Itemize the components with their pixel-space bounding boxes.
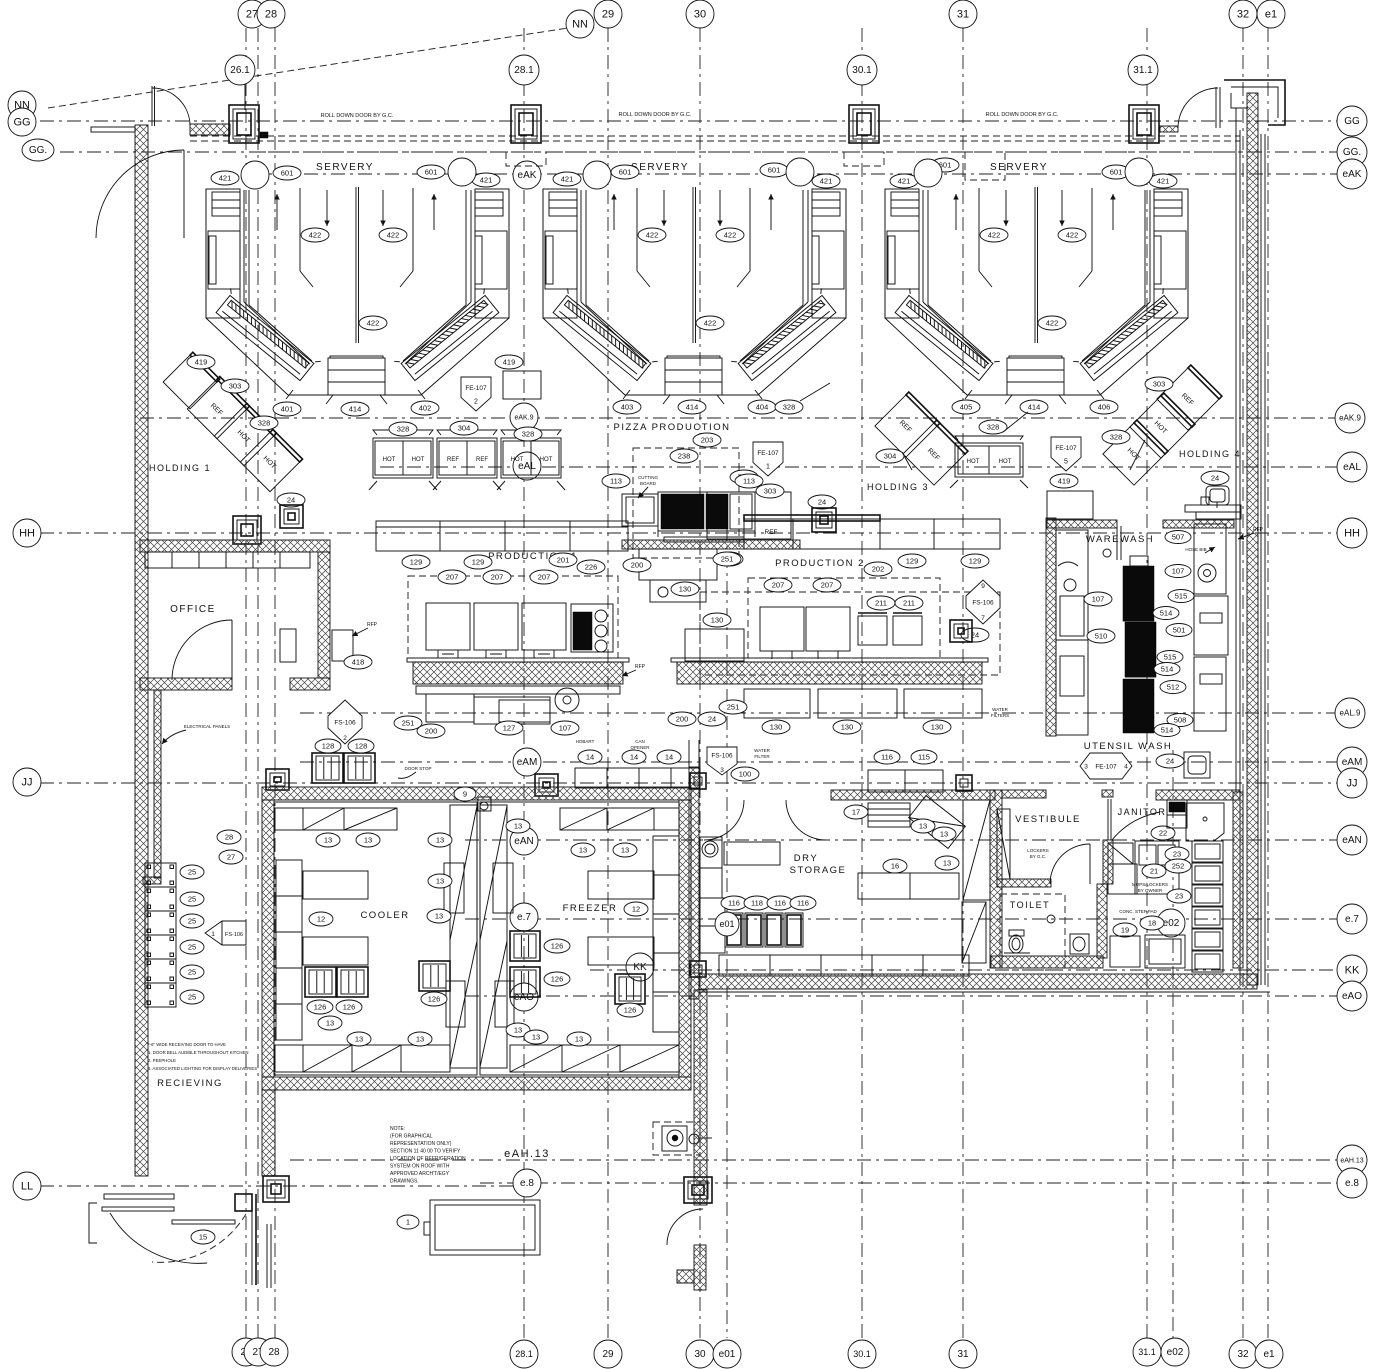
svg-text:113: 113 [743,476,755,485]
pizza under-counter table [639,549,717,580]
door stop rails row [575,768,700,788]
warewash tags [1084,592,1112,606]
svg-text:406: 406 [1098,402,1111,411]
door hook tick [260,132,268,138]
svg-text:eAK: eAK [1343,169,1362,180]
water filter pentagon FS-106 3 [707,747,737,775]
production 1 under-counter equipment [416,686,620,694]
grid bubbles second row [225,55,255,85]
svg-text:30.1: 30.1 [853,1349,871,1359]
pass shelf 24 bay2 [808,495,836,509]
bottom wall along KK [699,974,1257,989]
cooler top shelves [275,808,397,830]
svg-text:328: 328 [522,429,535,438]
svg-text:130: 130 [931,722,944,731]
svg-text:207: 207 [446,572,459,581]
grid horizontal row lines [40,120,1340,122]
svg-text:304: 304 [458,423,471,432]
janitor top cabinet [1167,800,1187,828]
svg-text:128: 128 [355,741,368,750]
svg-text:*-6" WIDE RECEIVING DOOR TO HA: *-6" WIDE RECEIVING DOOR TO HAVE [148,1042,226,1047]
servery front dashed boundary [259,151,1240,153]
pizza FE-107 pentagon 1 [753,442,783,476]
svg-text:419: 419 [503,357,516,366]
svg-text:NOTE:: NOTE: [390,1126,405,1132]
grid bubbles bottom [232,1338,260,1366]
svg-text:LOCATION OF REFRIGERATION: LOCATION OF REFRIGERATION [390,1156,466,1162]
servery bay geometry template [206,187,509,404]
svg-text:eAM: eAM [1342,757,1363,768]
cooler inner outline [274,802,477,1075]
svg-text:eAH.13: eAH.13 [504,1148,550,1160]
dry storage slash rack [909,796,966,849]
svg-text:129: 129 [410,557,423,566]
production 2 small units 211 [858,616,887,645]
svg-text:13: 13 [364,835,372,844]
svg-text:422: 422 [988,230,1001,239]
dry storage desk [724,842,780,865]
svg-text:303: 303 [764,486,777,495]
svg-text:SERVERY: SERVERY [631,162,689,173]
svg-text:GG: GG [1344,116,1360,127]
svg-text:SECTION 11 40 00 TO VERIFY: SECTION 11 40 00 TO VERIFY [390,1149,461,1155]
svg-text:25: 25 [188,967,196,976]
svg-text:238: 238 [678,451,691,460]
cooler bottom shelves [275,1045,450,1072]
entry door arc top-left [152,88,190,126]
utensil sink fixture [1184,752,1210,778]
svg-text:13: 13 [514,1025,522,1034]
dry storage bins [725,913,743,947]
svg-text:e02: e02 [1167,1347,1184,1358]
warewash top wall [1047,520,1117,528]
svg-text:507: 507 [1172,532,1185,541]
dry storage bottom shelf row [719,955,969,976]
svg-text:GG.: GG. [1343,147,1361,158]
office right wall [318,552,330,678]
warewash clean table column [1056,530,1088,640]
servery tags bay3 [890,174,918,188]
svg-text:HH: HH [19,527,35,539]
production 1 hatched counter [413,662,623,684]
cooler-freezer outer hatched walls [262,787,691,800]
svg-text:31: 31 [957,1349,969,1360]
grid bubbles top [238,0,266,28]
svg-text:HOT: HOT [383,457,396,463]
svg-text:515: 515 [1175,591,1188,600]
svg-text:3: 3 [1084,764,1088,771]
vestibule lockers [997,809,1010,879]
svg-text:MOPS/LOCKERS: MOPS/LOCKERS [1132,882,1168,887]
wall left exterior stub top [91,127,135,132]
vestibule walls [990,790,1002,968]
mixer and can opener [555,688,579,712]
svg-text:PIZZA PRODUCTION: PIZZA PRODUCTION [614,422,731,433]
svg-text:1: 1 [406,1217,410,1226]
bay3 FE-107 pentagon [1051,437,1081,471]
janitor door leaf [1107,799,1109,840]
svg-text:FE-107: FE-107 [757,450,779,457]
svg-text:CAN: CAN [635,739,645,744]
svg-text:252: 252 [1172,861,1185,870]
svg-text:207: 207 [538,572,551,581]
receiving corridor right wall below cooler [262,1090,275,1176]
svg-text:eAN: eAN [1342,835,1361,846]
pizza production dashed boundary [633,448,739,558]
svg-text:HOT: HOT [412,457,425,463]
freezer bottom shelves [510,1045,679,1072]
svg-text:e02: e02 [1163,918,1180,929]
grid vertical column lines [245,28,247,1338]
production 2 under-counter row [744,689,810,718]
receiving shelf column [145,863,176,887]
bay3 table [1047,491,1093,519]
boxes 116 near dry storage top [868,770,943,792]
svg-text:KK: KK [1345,964,1360,976]
svg-text:207: 207 [821,580,834,589]
svg-text:12: 12 [632,904,640,913]
svg-text:eAK.9: eAK.9 [1339,414,1361,423]
receiving bottom double door [104,1194,174,1199]
svg-text:328: 328 [987,422,1000,431]
svg-text:251: 251 [727,702,740,711]
svg-text:25: 25 [188,867,196,876]
svg-text:207: 207 [491,572,504,581]
svg-text:22: 22 [1159,828,1167,837]
svg-text:30: 30 [694,1349,706,1360]
svg-text:eAO: eAO [1342,991,1362,1002]
svg-text:DRY: DRY [794,853,818,864]
svg-text:FILTER: FILTER [754,754,770,759]
office top wall [140,540,330,552]
production 1 kettles [426,603,470,650]
svg-text:13: 13 [514,821,522,830]
svg-text:508: 508 [1174,715,1187,724]
svg-text:13: 13 [436,876,444,885]
svg-text:HOT: HOT [540,457,553,463]
svg-text:405: 405 [960,402,973,411]
svg-text:116: 116 [797,898,809,907]
svg-text:e01: e01 [719,919,734,929]
svg-text:501: 501 [1173,625,1186,634]
svg-text:31.1: 31.1 [1133,65,1153,76]
svg-text:24: 24 [287,495,295,504]
svg-text:421: 421 [561,174,574,183]
pass shelf 24 bay1 [277,493,305,507]
svg-text:BOARD: BOARD [640,481,657,486]
grid bubbles mid-plan along column 28.1 [513,161,541,189]
svg-text:HOT: HOT [999,459,1012,465]
freezer top shelves [560,808,679,830]
svg-text:130: 130 [841,722,854,731]
svg-text:LOCKERS: LOCKERS [1027,848,1049,853]
svg-text:422: 422 [704,318,717,327]
svg-text:FS-106: FS-106 [972,600,994,607]
svg-text:126: 126 [428,994,441,1003]
svg-text:28: 28 [268,1347,280,1358]
office side cabinet [280,629,296,662]
svg-text:421: 421 [898,176,911,185]
svg-text:ROLL DOWN DOOR BY G.C.: ROLL DOWN DOOR BY G.C. [321,113,394,119]
svg-text:401: 401 [281,404,294,413]
svg-text:ROLL DOWN DOOR BY G.C.: ROLL DOWN DOOR BY G.C. [986,112,1059,118]
svg-text:SYSTEM ON ROOF WITH: SYSTEM ON ROOF WITH [390,1164,450,1170]
svg-text:126: 126 [314,1002,327,1011]
svg-text:13: 13 [326,1018,334,1027]
svg-text:30: 30 [694,8,706,20]
svg-text:203: 203 [701,435,714,444]
svg-text:HOSE BIB: HOSE BIB [1185,547,1206,552]
svg-text:FS-106: FS-106 [334,720,356,727]
utensil wash 3-comp sink column [1192,841,1223,862]
svg-text:514: 514 [1161,725,1174,734]
svg-text:JJ: JJ [22,776,33,788]
svg-text:25: 25 [188,992,196,1001]
svg-text:514: 514 [1160,608,1173,617]
svg-text:13: 13 [435,911,443,920]
svg-text:OPENER: OPENER [630,745,650,750]
svg-text:GG.: GG. [29,145,47,156]
svg-text:510: 510 [1095,631,1108,640]
svg-text:116: 116 [774,898,786,907]
grid bubbles left [8,91,36,119]
svg-text:KK: KK [633,962,647,973]
svg-text:25: 25 [188,942,196,951]
bottom center door and wall stub [667,1209,703,1245]
svg-text:126: 126 [624,1005,637,1014]
svg-text:e1: e1 [1265,8,1277,20]
svg-text:2. PEEPHOLE: 2. PEEPHOLE [148,1058,176,1063]
svg-text:NN: NN [572,18,588,30]
svg-text:226: 226 [585,562,598,571]
svg-text:211: 211 [903,598,915,607]
receiving door swing arcs [110,1213,207,1263]
receiving inner wall [154,690,161,878]
svg-text:eAL: eAL [1343,462,1361,473]
svg-text:126: 126 [551,941,564,950]
svg-text:202: 202 [872,564,885,573]
svg-text:FREEZER: FREEZER [563,903,618,914]
svg-text:211: 211 [875,598,887,607]
svg-text:421: 421 [820,176,833,185]
janitor mop basin [1186,803,1224,841]
svg-text:(FOR GRAPHICAL: (FOR GRAPHICAL [390,1134,433,1140]
hot-ref-hot counter row below bay1 [373,438,433,478]
svg-text:116: 116 [881,752,893,761]
svg-text:24: 24 [818,497,826,506]
office desk row [145,552,310,568]
svg-text:328: 328 [1110,432,1123,441]
office door arc [172,620,232,680]
production 1 range with burners [571,604,613,652]
column box JJ corridor [690,773,706,789]
bay2 table 419 [707,492,791,539]
floor drain circle [702,841,718,857]
svg-text:422: 422 [1066,230,1079,239]
svg-text:3: 3 [720,767,724,774]
svg-text:HOT: HOT [511,457,524,463]
svg-text:207: 207 [772,580,785,589]
toilet room walls [991,956,1103,968]
office bottom wall [140,678,232,690]
production 1 FS-106 diamond [328,700,362,744]
svg-text:32: 32 [1237,1349,1249,1360]
svg-text:e1: e1 [1263,1349,1275,1360]
svg-text:eAM: eAM [517,757,538,768]
svg-text:414: 414 [349,404,362,413]
cooler divider shelf column [450,805,477,1068]
servery bay 3 [885,187,1188,404]
freezer tags [506,819,530,833]
svg-text:251: 251 [402,718,415,727]
svg-text:601: 601 [425,167,438,176]
svg-text:19: 19 [1121,925,1129,934]
svg-text:23: 23 [1175,891,1183,900]
svg-text:7: 7 [981,615,985,622]
svg-text:419: 419 [1058,476,1071,485]
svg-text:16: 16 [891,861,899,870]
svg-text:13: 13 [579,845,587,854]
production 2 tags [764,578,792,592]
compressor boxes above cooler [312,753,343,783]
svg-text:9: 9 [981,583,985,590]
cooler-freezer door notch [478,797,491,811]
svg-text:129: 129 [472,557,485,566]
dry storage right tall shelf [963,800,990,900]
svg-text:601: 601 [1110,167,1123,176]
column box e01 crossing [684,1177,712,1203]
svg-text:421: 421 [1157,176,1170,185]
svg-text:107: 107 [1172,566,1185,575]
svg-text:2: 2 [343,735,347,742]
slanted NN reference line top-left [48,28,568,108]
servery tags bay1 [211,171,239,185]
grid bubbles right [1337,106,1367,136]
dry storage center shelves [858,873,959,899]
janitor lockers [1108,843,1133,864]
svg-text:2: 2 [474,399,478,406]
svg-text:107: 107 [1092,594,1105,603]
top-right door arc [1178,88,1218,128]
svg-text:251: 251 [721,554,734,563]
door column box 27 [229,105,259,143]
dry storage double door arcs [704,800,744,840]
svg-text:13: 13 [416,1034,424,1043]
svg-text:27: 27 [246,8,258,20]
svg-text:HH: HH [1344,527,1360,539]
toilet sink [1070,934,1089,954]
svg-text:FE-107: FE-107 [1095,764,1117,771]
svg-text:26.1: 26.1 [230,65,250,76]
svg-text:512: 512 [1167,682,1180,691]
production 2 FS-106 diamond [966,580,1000,624]
svg-text:328: 328 [783,402,796,411]
svg-text:13: 13 [532,1032,540,1041]
svg-text:9: 9 [463,789,467,798]
holding 1 diagonal hot/ref units [163,352,220,409]
svg-text:eAL.9: eAL.9 [1340,709,1361,718]
svg-text:28.1: 28.1 [515,1349,533,1359]
wall segment above janitor [1156,790,1240,800]
servery bay 2 [543,187,846,404]
svg-text:FILTERS: FILTERS [991,713,1009,718]
svg-text:32: 32 [1237,8,1249,20]
svg-text:OFFICE: OFFICE [170,604,216,615]
svg-text:31.1: 31.1 [1138,1347,1156,1357]
svg-text:31: 31 [957,8,969,20]
svg-text:BY OWNER: BY OWNER [1138,888,1163,893]
svg-text:130: 130 [770,722,783,731]
janitor tags [1151,826,1175,840]
vestibule door arc [1050,844,1090,884]
column box JJ-28 [266,769,289,790]
servery tags bay2 [553,172,581,186]
svg-text:REF: REF [476,457,488,463]
svg-text:18: 18 [1148,918,1156,927]
cooler compressor coils [305,967,336,997]
svg-text:LL: LL [21,1180,33,1192]
svg-text:115: 115 [918,752,930,761]
svg-text:1: 1 [211,931,215,938]
bottom-center equipment dashed box [653,1122,700,1155]
svg-text:601: 601 [768,165,781,174]
svg-text:27: 27 [227,852,235,861]
wall left exterior [135,125,148,1176]
svg-text:13: 13 [919,821,927,830]
production 2 hatched counter [677,662,982,684]
svg-text:1. DOOR BELL AUDIBLE THROUGHOU: 1. DOOR BELL AUDIBLE THROUGHOUT KITCHEN [148,1050,248,1055]
svg-text:eAK.9: eAK.9 [514,414,533,421]
svg-text:422: 422 [309,230,322,239]
svg-text:414: 414 [1028,402,1041,411]
door column box 28.1 [511,105,541,143]
warewash dish machine line [1123,566,1154,621]
holding 3 diagonal units [875,392,940,457]
bay1 FE-107 pentagon [461,377,491,411]
svg-text:PRODUCTION 2: PRODUCTION 2 [775,558,865,569]
corridor wall below KK [694,990,707,1205]
svg-text:5: 5 [1064,459,1068,466]
svg-text:403: 403 [621,402,634,411]
svg-text:e.8: e.8 [1345,1178,1359,1189]
svg-text:COOLER: COOLER [360,910,409,921]
svg-text:601: 601 [281,168,294,177]
svg-text:HOT: HOT [967,459,980,465]
svg-text:127: 127 [503,723,516,732]
cooler tags [316,833,340,847]
door column box 30.1 [849,105,879,143]
svg-text:328: 328 [258,418,271,427]
svg-text:eAH.13: eAH.13 [1340,1157,1363,1164]
svg-text:25: 25 [188,894,196,903]
svg-text:404: 404 [756,402,769,411]
svg-text:29: 29 [602,1349,614,1360]
grid bubble e01 mid-plan [715,912,739,936]
svg-text:601: 601 [619,167,632,176]
svg-text:3. ASSOCIATED LIGHTING FOR DIS: 3. ASSOCIATED LIGHTING FOR DISPLAY DELIV… [148,1066,257,1071]
top-right corner assembly [1224,80,1285,125]
svg-text:BY G.C.: BY G.C. [1030,854,1046,859]
svg-text:200: 200 [631,560,644,569]
svg-text:14: 14 [630,752,638,761]
svg-text:13: 13 [436,835,444,844]
svg-text:130: 130 [679,584,692,593]
svg-text:APPROVED ARCH'T/EGY: APPROVED ARCH'T/EGY [390,1171,450,1177]
svg-text:eAK: eAK [518,170,537,181]
svg-text:421: 421 [219,173,232,182]
svg-text:13: 13 [943,858,951,867]
svg-text:24: 24 [1211,473,1219,482]
